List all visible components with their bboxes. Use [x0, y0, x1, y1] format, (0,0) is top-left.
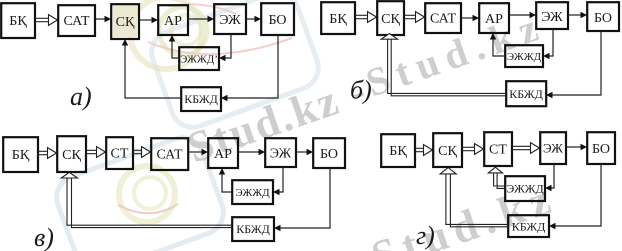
svg-text:КБЖД: КБЖД [184, 92, 218, 106]
svg-text:СТ: СТ [111, 147, 129, 162]
open arrow СҚ to СТ (g) [462, 144, 484, 155]
block БО (v) [313, 138, 345, 168]
svg-text:БО: БО [268, 13, 286, 28]
svg-text:ЭЖЖД: ЭЖЖД [507, 51, 542, 63]
wire ЭЖЖД to АР (v) [219, 168, 232, 192]
block СҚ (g) [433, 133, 462, 167]
watermark logo rings (top) [130, 0, 202, 69]
svg-text:БО: БО [320, 147, 338, 162]
open arrow СТ to САТ (v) [133, 147, 151, 158]
svg-text:СҚ: СҚ [116, 15, 135, 30]
wire ЭЖ down to ЭЖЖД (b) [543, 29, 553, 59]
svg-text:АР: АР [164, 14, 182, 29]
diagram a [1, 3, 294, 111]
wire КБЖД to СҚ (a) [122, 39, 181, 98]
svg-text:ЭЖ: ЭЖ [541, 10, 563, 25]
block ЭЖ (v) [265, 138, 296, 167]
block БҚ (v) [3, 137, 38, 172]
wire ЭЖ to БО (g) [566, 144, 587, 150]
block ЭЖ (b) [536, 2, 568, 29]
wire ЭЖ to БО (v) [296, 149, 313, 155]
svg-text:АР: АР [485, 12, 503, 27]
block КБЖД (g) [508, 215, 549, 237]
block БҚ (a) [1, 3, 35, 38]
svg-text:ЭЖ: ЭЖ [543, 141, 563, 156]
block САТ (v) [151, 138, 188, 170]
svg-text:ЭЖЖД: ЭЖЖД [506, 182, 543, 196]
diagram g [381, 132, 615, 250]
svg-text:СҚ: СҚ [438, 144, 457, 159]
wire ЭЖ to БО (a) [246, 16, 261, 22]
wire БО down to КБЖД (a) [221, 35, 278, 101]
svg-text:АР: АР [214, 147, 232, 162]
svg-text:ЭЖ: ЭЖ [270, 147, 292, 162]
wire ЭЖ down to ЭЖЖД (g) [545, 164, 554, 191]
block СТ (g) [484, 132, 512, 166]
block АР (v) [208, 138, 238, 168]
wire ЭЖЖД to АР (a) [169, 35, 179, 58]
watermark pink arc (bottom) [118, 204, 178, 213]
block ЭЖЖД (g) [505, 176, 545, 201]
double wire ЭЖЖД to СТ (g) [488, 167, 505, 188]
svg-text:БҚ: БҚ [9, 14, 27, 29]
block КБЖД (a) [181, 87, 221, 111]
svg-text:а): а) [70, 82, 92, 111]
block САТ (b) [425, 3, 461, 33]
block ЭЖЖД (a) [179, 47, 219, 70]
svg-text:БО: БО [594, 11, 612, 26]
open arrow СҚ to САТ (b) [404, 12, 425, 23]
svg-text:ЭЖЖД: ЭЖЖД [235, 187, 270, 199]
wire АР to ЭЖ (b) [509, 12, 536, 18]
wire ЭЖ down to ЭЖЖД (a) [219, 34, 231, 61]
block СТ (v) [106, 137, 133, 169]
block КБЖД (v) [232, 217, 274, 241]
open arrow БҚ to СҚ (b) [355, 12, 377, 23]
svg-text:СТ: СТ [489, 143, 507, 158]
wire АР to ЭЖ (v) [238, 149, 265, 155]
svg-text:ЭЖ: ЭЖ [219, 13, 241, 28]
svg-text:в): в) [34, 223, 54, 251]
block ЭЖЖД (b) [505, 45, 543, 67]
block АР (b) [479, 3, 509, 33]
wire БО down to КБЖД (b) [546, 31, 601, 98]
double wire КБЖД to СҚ (v) [61, 172, 232, 227]
open arrow СТ to ЭЖ (g) [512, 143, 540, 154]
block БҚ (b) [321, 2, 355, 34]
svg-text:г): г) [416, 221, 435, 250]
wire АР to ЭЖ (a) [188, 16, 214, 22]
block БО (a) [261, 3, 294, 35]
svg-text:ЭЖЖД’: ЭЖЖД’ [180, 54, 218, 66]
block ЭЖЖД (v) [232, 180, 273, 204]
block АР (a) [158, 5, 188, 35]
block КБЖД (b) [506, 81, 546, 106]
wire БО down to КБЖД (g) [549, 164, 601, 229]
block ЭЖ (g) [540, 132, 566, 164]
open arrow БҚ to СҚ (g) [415, 145, 433, 156]
open arrow БҚ to САТ (a) [35, 15, 58, 26]
svg-text:СҚ: СҚ [381, 12, 400, 27]
svg-text:САТ: САТ [63, 14, 90, 29]
watermark beige fill inside SK box of diagram a [113, 6, 137, 37]
double wire КБЖД to СҚ (g) [440, 168, 508, 227]
svg-text:САТ: САТ [156, 148, 183, 163]
double wire КБЖД to СҚ (b) [381, 34, 506, 96]
block БО (b) [587, 2, 619, 31]
svg-text:КБЖД: КБЖД [512, 220, 546, 234]
wire ЭЖ down to ЭЖЖД (v) [273, 167, 283, 195]
wire ЭЖЖД to АР (b) [490, 33, 505, 56]
svg-text:БО: БО [592, 142, 610, 157]
svg-text:БҚ: БҚ [329, 12, 347, 27]
diagram b [321, 1, 619, 106]
wire ЭЖ to БО (b) [568, 12, 587, 18]
block БҚ (g) [381, 134, 415, 167]
block БО (g) [587, 132, 615, 164]
wire СҚ to АР (a) [139, 17, 158, 23]
block СҚ (a) [111, 4, 139, 39]
block САТ (a) [58, 5, 95, 36]
open arrow БҚ to СҚ (v) [38, 148, 57, 159]
wire САТ to СҚ (a) [95, 16, 111, 22]
watermark pink arc (top) [148, 38, 292, 54]
block СҚ (v) [57, 136, 86, 172]
open arrow СҚ to СТ (v) [86, 147, 106, 158]
svg-text:КБЖД: КБЖД [509, 87, 543, 101]
watermark logo rings (bottom) [119, 166, 175, 222]
watermark rounded-square logo outline (bottom) [51, 132, 230, 251]
wire САТ to АР (v) [189, 149, 208, 155]
watermark rounded-square logo outline (top) [146, 0, 325, 133]
svg-text:КБЖД: КБЖД [236, 222, 270, 236]
svg-text:б): б) [350, 76, 372, 105]
diagram v [3, 136, 345, 251]
svg-text:СҚ: СҚ [62, 148, 81, 163]
svg-text:БҚ: БҚ [12, 148, 30, 163]
wire БО down to КБЖД (v) [274, 168, 330, 231]
block ЭЖ (a) [214, 4, 246, 34]
wire САТ to АР (b) [461, 15, 479, 21]
svg-text:САТ: САТ [430, 12, 457, 27]
svg-text:БҚ: БҚ [389, 144, 407, 159]
block СҚ (b) [377, 1, 404, 35]
